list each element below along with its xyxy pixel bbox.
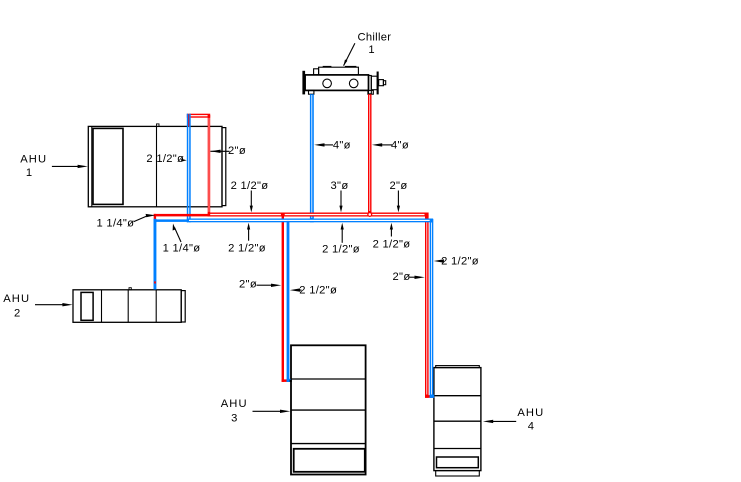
svg-text:2"ø: 2"ø [390, 180, 408, 192]
svg-text:Chiller: Chiller [357, 32, 391, 44]
svg-text:4: 4 [528, 420, 535, 432]
svg-text:2 1/2"ø: 2 1/2"ø [373, 239, 411, 251]
svg-text:1 1/4"ø: 1 1/4"ø [163, 243, 201, 255]
svg-text:2 1/2"ø: 2 1/2"ø [146, 153, 184, 165]
svg-text:2 1/2"ø: 2 1/2"ø [299, 285, 337, 297]
svg-text:4"ø: 4"ø [333, 139, 351, 151]
svg-text:AHU: AHU [3, 293, 30, 305]
svg-text:4"ø: 4"ø [391, 139, 409, 151]
svg-text:2"ø: 2"ø [393, 271, 411, 283]
svg-text:2: 2 [14, 307, 21, 319]
svg-text:3"ø: 3"ø [331, 180, 349, 192]
svg-text:2"ø: 2"ø [228, 145, 246, 157]
svg-text:3: 3 [231, 413, 238, 425]
svg-text:2"ø: 2"ø [239, 279, 257, 291]
svg-text:AHU: AHU [20, 153, 47, 165]
svg-text:1: 1 [26, 167, 33, 179]
svg-text:1: 1 [368, 44, 375, 56]
svg-text:2 1/2"ø: 2 1/2"ø [322, 243, 360, 255]
svg-text:2 1/2"ø: 2 1/2"ø [228, 243, 266, 255]
svg-text:2 1/2"ø: 2 1/2"ø [231, 180, 269, 192]
svg-text:2 1/2"ø: 2 1/2"ø [441, 255, 479, 267]
svg-text:AHU: AHU [221, 398, 248, 410]
svg-text:1 1/4"ø: 1 1/4"ø [97, 218, 135, 230]
svg-text:AHU: AHU [517, 407, 544, 419]
